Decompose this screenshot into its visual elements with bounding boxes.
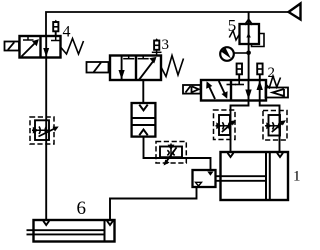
- wire converter to throttle run: [144, 137, 211, 170]
- valve V4 solenoid: [5, 42, 20, 51]
- valve V3 body: [110, 56, 161, 81]
- valve V2 port icon right: [257, 64, 262, 81]
- valve V3 plunger T above: [152, 50, 162, 56]
- cylinder C1 rod: [216, 175, 267, 177]
- FC-A throttle arcs: [222, 122, 229, 129]
- valve V3 spring: [161, 56, 184, 77]
- FC-A check valve: [216, 122, 222, 129]
- FC-mid throttle arrow: [165, 148, 177, 164]
- FC-B channel: [265, 125, 280, 127]
- svg-text:3: 3: [162, 37, 170, 53]
- cylinder C1 piston: [265, 152, 267, 200]
- regulator top chevron: [245, 20, 253, 25]
- wire main left riser x=46 (valve4 to tank 6): [45, 58, 47, 221]
- regulator pilot loop: [252, 34, 265, 47]
- valve V3 left cell down arrow: [121, 56, 123, 80]
- pressure gauge: [220, 47, 234, 61]
- C6 rod: [27, 229, 105, 231]
- svg-text:4: 4: [63, 24, 71, 41]
- FC-left inner box: [35, 120, 49, 140]
- wire oil block to tank: [110, 187, 197, 220]
- flow control FC-mid dashed box: [156, 142, 186, 164]
- FC-left check valve: [33, 127, 39, 134]
- tank cylinder C6 body: [34, 220, 115, 242]
- valve V4 spring: [61, 39, 84, 55]
- FC-A inner box: [219, 115, 230, 135]
- FC-A throttle arrow: [222, 122, 234, 132]
- air source triangle: [289, 4, 301, 20]
- junction dot: [246, 51, 251, 56]
- valve V4 left cell flow arrow: [22, 41, 38, 57]
- valve V2 right spring: [266, 76, 281, 88]
- valve V2 left solenoid-pilot actuator: [183, 85, 201, 94]
- FC-A channel: [216, 125, 231, 127]
- valve V2 down arrow: [248, 80, 250, 101]
- FC-mid check valve: [168, 145, 175, 150]
- valve V2 blocked T right: [235, 80, 244, 85]
- FC-mid inner box: [160, 147, 182, 158]
- valve V4 plunger pin icon: [53, 20, 58, 36]
- FC-B throttle arcs: [272, 122, 279, 129]
- valve V2 up arrow: [259, 80, 261, 101]
- cylinder C1 body: [221, 152, 289, 200]
- regulator spring: [229, 31, 239, 41]
- valve V2 left cell arrows: [208, 83, 216, 99]
- valve V2 right pilot box: [266, 88, 289, 98]
- wire valve3 to converter: [142, 80, 144, 103]
- converter top chevron: [139, 105, 147, 111]
- svg-text:5: 5: [228, 16, 237, 35]
- cylinder C1 left port chevron: [228, 153, 234, 157]
- valve V4 body: [20, 36, 61, 58]
- valve V3 plunger pin icon: [154, 38, 159, 50]
- valve V2 body: [201, 80, 266, 101]
- wire valve2 to FC-A staircase: [231, 101, 249, 153]
- valve V3 right cell blocked T: [138, 56, 149, 59]
- valve V4 left cell blocked port T: [23, 36, 34, 40]
- valve V2 blocked T left: [227, 84, 237, 86]
- FC-B throttle arrow: [272, 122, 284, 132]
- converter bottom chevron: [139, 130, 147, 136]
- flow control FC-B dashed box: [263, 111, 287, 141]
- oil block bottom port triangle: [196, 182, 202, 186]
- FC-B check valve: [266, 122, 272, 129]
- svg-text:6: 6: [77, 198, 87, 219]
- oil block top port arrow: [207, 172, 213, 176]
- regulator R5 body: [240, 24, 260, 44]
- oil block body: [193, 170, 216, 187]
- regulator inner arrowhead: [246, 33, 250, 38]
- wire top rail: [46, 12, 288, 36]
- regulator line through: [248, 12, 250, 80]
- flow control FC-A dashed box: [214, 110, 236, 140]
- FC-mid throttle arcs: [167, 150, 174, 155]
- FC-left throttle arcs: [39, 127, 46, 134]
- C6 left port chevron: [43, 221, 49, 225]
- flow control FC-left dashed box: [30, 117, 54, 144]
- cylinder C1 right port chevron: [277, 153, 283, 157]
- valve V2 port icon left: [237, 64, 242, 81]
- C6 piston: [104, 220, 106, 242]
- C6 right port chevron: [107, 221, 113, 225]
- valve V4 right cell down arrow: [45, 36, 47, 58]
- svg-text:2: 2: [268, 65, 276, 81]
- wire valve2 to FC-B staircase: [260, 101, 280, 153]
- valve V3 left cell blocked T: [123, 56, 134, 59]
- FC-B inner box: [269, 115, 281, 136]
- gauge link wire: [234, 52, 249, 54]
- svg-text:1: 1: [293, 169, 301, 185]
- FC-left throttle arrow: [39, 128, 57, 137]
- valve V4 plunger T inside: [51, 36, 61, 41]
- valve V3 solenoid: [87, 62, 109, 73]
- FC-left channel: [32, 129, 49, 131]
- valve V3 right cell flow arrow: [139, 59, 155, 80]
- FC-mid vertical channel: [170, 144, 172, 158]
- air-oil converter body: [132, 103, 156, 137]
